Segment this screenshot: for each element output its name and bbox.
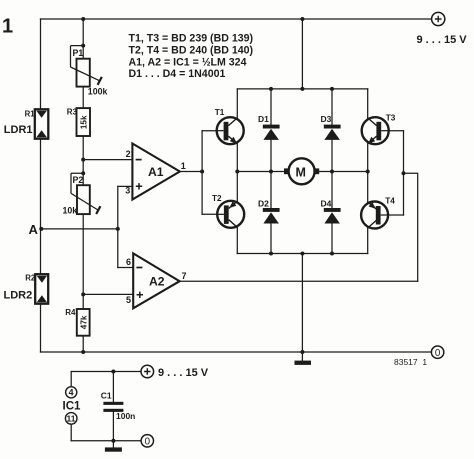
svg-text:LDR1: LDR1 [4,124,33,136]
wire left rail [40,19,42,352]
svg-text:D3: D3 [321,114,332,124]
svg-text:11: 11 [67,414,76,424]
junction R4 / bottom rail [81,350,85,354]
svg-text:4: 4 [69,388,74,398]
junction C1 / IC1 top line [111,370,115,374]
IC1 pin 11 circle [65,413,77,425]
svg-text:A1: A1 [148,165,164,179]
resistor R4 [77,309,90,336]
svg-text:R3: R3 [67,108,78,117]
diode D2 [263,208,280,224]
parts list note text [129,33,254,81]
junction supply drop / top rail [300,17,304,21]
svg-text:A: A [29,222,39,237]
terminal 0 bottom right [431,346,443,359]
junction D1 / bridge top rail [269,87,273,91]
svg-text:1: 1 [2,16,13,38]
wire C1 bottom [112,412,114,441]
svg-text:15k: 15k [79,115,88,129]
wire IC1 pin4 stub [70,372,72,387]
svg-text:P1: P1 [73,48,84,58]
transistor T2 [217,201,245,228]
svg-text:R1: R1 [25,109,36,118]
svg-text:10k: 10k [63,206,78,216]
wire T3 collector [367,89,369,118]
diode D1 [263,125,280,140]
diode D3 [324,125,341,140]
wire A2 pin6 stub [118,267,133,269]
svg-text:R2: R2 [25,273,36,282]
wire IC1 pin11 stub [70,424,72,441]
wire T2 base [202,213,224,215]
wire P1 to R3 [82,87,84,109]
wire bridge bottom rail [237,253,367,255]
wire T1 collector [236,89,238,118]
junction D2 / bridge bottom rail [269,252,273,256]
svg-text:T2: T2 [212,194,222,203]
wire P1 column from top rail [82,19,84,59]
potentiometer P2 [71,173,100,214]
svg-text:0: 0 [145,437,151,448]
svg-text:0: 0 [435,348,441,359]
svg-text:P2: P2 [73,175,84,185]
wire R3 to P2 [82,136,84,185]
wire mid rail right of motor [319,171,368,173]
wire A1 inverting input (pin2) [83,159,132,161]
motor M [284,158,319,184]
wire T3/T4 base column [403,131,405,215]
wire mid rail left of motor [237,171,284,173]
svg-text:47k: 47k [79,315,88,329]
wire A1 pin3 stub [118,185,133,187]
junction P1 wiper tap [81,44,85,48]
wire D1 column lower [270,140,272,172]
wire D4 column upper [331,172,333,209]
wire D3 column lower [331,140,333,172]
ground at bridge center [295,352,312,365]
wire T1 base [202,130,224,132]
svg-text:2: 2 [126,149,131,159]
svg-text:100n: 100n [116,411,135,421]
wire center drop bridge to bottom rail [301,254,303,353]
ground at C1 [105,441,122,452]
wire bottom rail [41,351,432,353]
junction C1 / IC1 bottom line [111,439,115,443]
LDR R2 [35,274,48,304]
wire D4 column lower [331,224,333,254]
svg-text:R4: R4 [65,308,76,317]
svg-text:A1, A2 = IC1 = ½LM 324: A1, A2 = IC1 = ½LM 324 [129,56,247,68]
wire A2 output to riser [180,280,418,282]
junction D3 D4 / mid rail [330,170,334,174]
terminal 0 IC1 [141,435,153,448]
junction A1 output / T1 T2 bases [200,170,204,174]
junction center drop / bridge bottom rail [300,252,304,256]
svg-text:LDR2: LDR2 [4,290,33,302]
wire D3 column upper [331,89,333,125]
wire T4 emitter from mid rail [367,172,369,203]
junction D1 D2 / mid rail [269,170,273,174]
junction P1 column / top rail [81,17,85,21]
junction P2 wiper tap [81,171,85,175]
transistor T4 [361,202,389,229]
junction node A to op-amp inputs [116,227,120,231]
terminal + supply IC1 [141,365,154,378]
junction T3 T4 bases / A2 output riser [402,171,406,175]
wire T4 collector to bottom [367,228,369,254]
wire D1 column upper [270,89,272,125]
transistor T3 [362,117,390,144]
svg-text:T2, T4 = BD 240 (BD 140): T2, T4 = BD 240 (BD 140) [129,45,254,57]
svg-text:5: 5 [126,295,131,305]
wire right riser to base node [404,173,418,281]
wire IC1 top line [71,371,141,373]
wire supply drop to bridge [301,19,303,89]
transistor T1 [216,117,244,144]
wire top supply rail [41,18,432,20]
wire T1 emitter to mid rail [236,143,238,171]
junction supply drop / bridge top rail [300,87,304,91]
svg-text:D1: D1 [258,114,269,124]
wire T3 emitter to mid rail [367,143,369,171]
wire R4 to bottom rail [82,336,84,352]
wire D2 column lower [270,224,272,254]
op-amp A1 [132,144,179,200]
junction D4 / bridge bottom rail [330,252,334,256]
wire T2 emitter from mid rail [236,172,238,202]
wire IC1 bottom line [71,440,141,442]
potentiometer P1 [71,46,102,87]
junction D3 / bridge top rail [330,87,334,91]
junction P2/R4 to A2 pin 5 [81,292,85,296]
svg-text:T4: T4 [385,197,395,206]
LDR R1 [35,109,49,138]
wire T4 base [381,214,404,216]
svg-text:6: 6 [126,257,131,267]
svg-text:9 . . . 15 V: 9 . . . 15 V [417,34,468,46]
wire T3 base [381,130,403,132]
svg-text:T1, T3 = BD 239 (BD 139): T1, T3 = BD 239 (BD 139) [129,33,254,45]
svg-text:D1 . . . D4 = 1N4001: D1 . . . D4 = 1N4001 [129,68,226,80]
svg-text:9 . . . 15 V: 9 . . . 15 V [158,367,209,379]
wire bridge top rail [237,88,367,90]
svg-text:7: 7 [182,271,187,281]
node A junction [39,227,43,231]
capacitor C1 [103,402,123,412]
svg-text:C1: C1 [101,391,112,401]
svg-text:M: M [296,165,306,179]
wire C1 top [112,372,114,402]
svg-text:1: 1 [181,161,186,171]
wire T1/T2 base column [201,131,203,215]
svg-text:100k: 100k [88,87,108,97]
wire T2 collector to bottom [236,227,238,254]
junction T3 emitter / mid rail [366,170,370,174]
svg-text:3: 3 [125,186,130,196]
resistor R3 [77,108,91,136]
svg-text:83517 1: 83517 1 [394,357,427,367]
svg-text:IC1: IC1 [63,400,82,412]
wire A2 non-inverting input (pin5) [83,293,133,295]
wire P2 to R4 [82,214,84,309]
terminal + supply top right [432,12,445,25]
junction T1 emitter / mid rail [235,170,239,174]
diode D4 [324,208,341,224]
svg-text:D4: D4 [321,198,332,208]
op-amp A2 [133,253,179,308]
wire A1 output to T1/T2 bases [180,171,202,173]
IC1 pin 4 circle [66,387,77,398]
junction ground / bottom rail [300,350,304,354]
junction R3/P2 to A1 pin 2 [81,158,85,162]
svg-text:A2: A2 [149,275,165,289]
svg-text:D2: D2 [258,198,269,208]
svg-text:T1: T1 [215,108,225,117]
wire vertical to A1 pin3 and A2 pin6 [117,186,119,267]
svg-text:T3: T3 [386,114,396,123]
wire D2 column upper [270,172,272,209]
wire node A horizontal [41,228,118,230]
